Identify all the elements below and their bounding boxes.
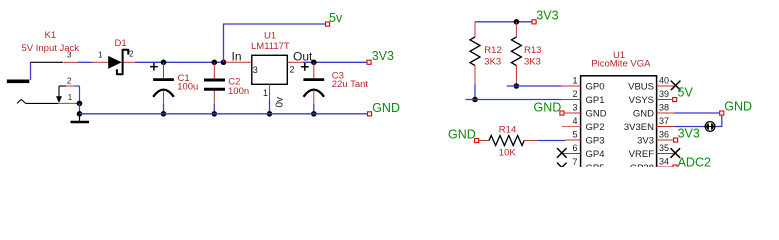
svg-text:R13: R13 bbox=[524, 45, 541, 56]
wire to rail bbox=[79, 103, 81, 113]
pin 38 GND wire bbox=[657, 112, 674, 114]
wire R13 to GP0 bbox=[516, 85, 561, 87]
svg-text:40: 40 bbox=[659, 76, 669, 86]
svg-text:GP4: GP4 bbox=[586, 149, 605, 160]
svg-text:5v: 5v bbox=[329, 11, 343, 25]
pin 36 3V3 bbox=[657, 139, 675, 141]
net 3V3 top bbox=[532, 9, 559, 24]
pin 34 GP28 = ADC2 bbox=[657, 166, 675, 168]
svg-text:K1: K1 bbox=[45, 30, 57, 41]
svg-text:D1: D1 bbox=[115, 38, 127, 49]
svg-text:5V: 5V bbox=[678, 86, 694, 100]
switch arm top bbox=[59, 85, 66, 87]
regulator U1 bbox=[225, 31, 313, 114]
pin 1 stub bbox=[58, 102, 76, 104]
svg-text:3K3: 3K3 bbox=[524, 57, 541, 68]
svg-text:GP2: GP2 bbox=[586, 122, 605, 133]
sleeve chevron bbox=[17, 100, 26, 104]
svg-text:GP1: GP1 bbox=[586, 95, 605, 106]
svg-text:1: 1 bbox=[68, 93, 73, 102]
5v branch wire bbox=[224, 24, 326, 62]
svg-text:5: 5 bbox=[572, 130, 577, 140]
node U1 gnd bbox=[267, 111, 273, 117]
svg-text:7: 7 bbox=[572, 157, 577, 167]
pin 2 Out bbox=[287, 61, 303, 63]
svg-text:4: 4 bbox=[572, 116, 577, 126]
svg-text:3: 3 bbox=[67, 51, 72, 60]
resistor R13 bbox=[511, 22, 541, 86]
3V3 top wire bbox=[475, 21, 532, 23]
wire R12 to GP1 bbox=[475, 99, 562, 101]
node C3 bottom bbox=[311, 111, 317, 117]
diode D1 bbox=[93, 38, 136, 74]
net GND at pin3 bbox=[534, 100, 565, 115]
pin 2 wire down bbox=[79, 86, 81, 103]
svg-text:2: 2 bbox=[572, 89, 577, 99]
svg-text:100u: 100u bbox=[177, 82, 198, 93]
svg-text:PicoMite VGA: PicoMite VGA bbox=[591, 58, 651, 69]
svg-text:VREF: VREF bbox=[629, 149, 655, 160]
connector K1 label bbox=[22, 30, 80, 54]
svg-text:1: 1 bbox=[572, 76, 577, 86]
net 3V3 left bbox=[367, 49, 394, 64]
pin 3 stub bbox=[64, 61, 79, 63]
pin 2 GP1 bbox=[562, 99, 581, 101]
capacitor C2 bbox=[204, 62, 249, 114]
pin 35 VREF no-connect bbox=[657, 153, 675, 155]
svg-text:GP3: GP3 bbox=[586, 135, 605, 146]
node 5v tap bbox=[221, 60, 227, 66]
pin 37 3V3EN tied to GND bbox=[657, 126, 674, 128]
node C1 top bbox=[161, 60, 167, 66]
pin 39 VSYS = 5V bbox=[657, 99, 675, 101]
switch arm arrow bbox=[58, 86, 60, 97]
svg-text:36: 36 bbox=[659, 130, 669, 140]
junction glyph on 3V3EN wire bbox=[705, 122, 715, 132]
svg-text:1: 1 bbox=[98, 51, 103, 60]
svg-text:34: 34 bbox=[659, 157, 669, 167]
svg-text:3V3: 3V3 bbox=[536, 9, 558, 23]
bottom gnd rail bbox=[80, 113, 368, 115]
svg-text:3: 3 bbox=[253, 65, 258, 75]
wire U1 out to 3V3 bbox=[303, 61, 367, 63]
svg-text:GP5: GP5 bbox=[586, 163, 605, 167]
svg-text:LM1117T: LM1117T bbox=[251, 41, 290, 52]
svg-text:GND: GND bbox=[633, 108, 654, 119]
ground symbol bbox=[71, 114, 90, 122]
sleeve line bbox=[26, 102, 58, 104]
svg-text:1: 1 bbox=[263, 88, 268, 98]
stub wire left of R12 node bbox=[466, 99, 476, 101]
svg-text:GP0: GP0 bbox=[586, 81, 605, 92]
IC U1 PicoMite VGA bbox=[581, 50, 657, 176]
node C2 bottom bbox=[212, 111, 218, 117]
pin 3 symbol line bbox=[31, 61, 64, 63]
svg-text:R12: R12 bbox=[484, 45, 501, 56]
junction on rail bbox=[77, 111, 83, 117]
node C2 top bbox=[212, 60, 218, 66]
stub wire left of R13 node bbox=[507, 85, 517, 87]
svg-text:GND: GND bbox=[534, 100, 562, 114]
node C1 bottom bbox=[161, 111, 167, 117]
svg-text:3K3: 3K3 bbox=[484, 57, 501, 68]
pin 40 VBUS no-connect bbox=[657, 85, 675, 87]
tip bar bbox=[7, 80, 30, 84]
net 5v bbox=[326, 11, 343, 26]
wire R14 to GP3 bbox=[538, 140, 566, 142]
pin 3 In bbox=[225, 61, 252, 63]
svg-text:100n: 100n bbox=[228, 86, 249, 97]
svg-text:GND: GND bbox=[586, 108, 607, 119]
left pin stubs bbox=[557, 76, 607, 174]
svg-text:3V3EN: 3V3EN bbox=[624, 122, 654, 133]
svg-text:37: 37 bbox=[659, 116, 669, 126]
svg-text:GND: GND bbox=[372, 101, 400, 115]
svg-text:In: In bbox=[232, 50, 242, 64]
svg-text:2: 2 bbox=[129, 50, 134, 59]
pin 2 stub bbox=[66, 85, 75, 87]
pin 1 GP0 bbox=[562, 85, 581, 87]
pin 3 GND bbox=[564, 112, 580, 114]
pin 6 GP4 no-connect bbox=[562, 153, 581, 155]
svg-text:3V3: 3V3 bbox=[678, 127, 700, 141]
pin 5 GP3 bbox=[565, 139, 580, 141]
node C3 top bbox=[311, 60, 317, 66]
svg-text:3V3: 3V3 bbox=[637, 135, 654, 146]
svg-text:ADC2: ADC2 bbox=[678, 156, 711, 168]
node R13 top bbox=[514, 19, 520, 25]
svg-text:38: 38 bbox=[659, 103, 669, 113]
svg-text:35: 35 bbox=[659, 143, 669, 153]
capacitor C3 bbox=[301, 62, 369, 114]
resistor R12 bbox=[470, 22, 502, 100]
pin 3 riser wire bbox=[30, 62, 32, 80]
svg-text:10K: 10K bbox=[499, 148, 517, 159]
wire D1 to U1 input bbox=[135, 61, 224, 63]
svg-text:6: 6 bbox=[572, 143, 577, 153]
svg-text:22u Tant: 22u Tant bbox=[332, 79, 369, 90]
capacitor C1 bbox=[150, 62, 198, 114]
svg-text:VBUS: VBUS bbox=[628, 81, 654, 92]
svg-text:3: 3 bbox=[572, 103, 577, 113]
svg-text:GND: GND bbox=[448, 128, 476, 142]
wire K1 pin3 to D1 bbox=[78, 61, 93, 63]
pin 4 GP2 bbox=[561, 126, 580, 128]
svg-text:0v: 0v bbox=[275, 97, 286, 108]
pin 1 0v bbox=[269, 84, 271, 100]
net GND left bbox=[368, 101, 400, 116]
svg-text:3V3: 3V3 bbox=[372, 49, 394, 63]
svg-text:GP28: GP28 bbox=[630, 163, 654, 167]
svg-text:Out: Out bbox=[293, 50, 313, 64]
svg-text:2: 2 bbox=[290, 65, 295, 75]
svg-text:2: 2 bbox=[67, 76, 72, 85]
pin 7 GP5 no-connect bbox=[562, 167, 581, 169]
node R13 bottom bbox=[514, 83, 520, 89]
right pin stubs bbox=[624, 76, 752, 174]
svg-text:GND: GND bbox=[724, 100, 752, 114]
junction pin1/pin2 bbox=[77, 101, 83, 107]
svg-text:R14: R14 bbox=[499, 125, 516, 136]
resistor R14 bbox=[479, 125, 538, 159]
net GND at R14 bbox=[448, 128, 479, 143]
node R12 bottom bbox=[472, 97, 478, 103]
svg-text:VSYS: VSYS bbox=[629, 95, 654, 106]
svg-text:39: 39 bbox=[659, 89, 669, 99]
connector K1 jack symbol bbox=[7, 51, 82, 117]
